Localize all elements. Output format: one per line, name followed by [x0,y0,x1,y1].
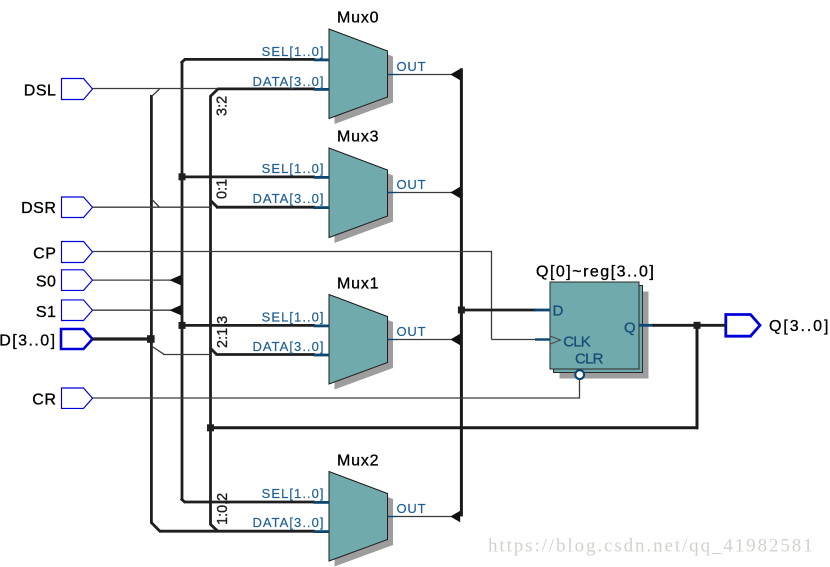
svg-text:CLK: CLK [563,334,591,351]
svg-text:Q: Q [624,320,636,337]
wire C bottom bevel to Mux2 DATA [210,524,218,532]
wire Mux0 OUT [398,74,452,76]
wire Mux2 OUT [398,516,452,518]
wire Q feedback vertical (x=697) [696,325,699,429]
CLR bubble [575,370,584,379]
svg-text:S1: S1 [36,304,57,321]
mux U-Mux2 shadow [335,477,394,567]
wire D[3..0] thick [93,337,153,340]
wire Mux1 DATA thick [216,353,316,356]
svg-text:Mux3: Mux3 [337,129,379,146]
svg-text:0:1: 0:1 [215,179,231,199]
wire C top bevel to Mux0 DATA [210,89,218,97]
arrow Mux0 OUT into bus [450,69,460,80]
wire reg Q thick [653,324,726,327]
stub Mux0 SEL [314,59,330,62]
port D[3..0] (bus, bold) [61,329,93,349]
clock edge triangle [550,336,561,344]
stub reg Q [639,324,654,327]
svg-text:Q[3..0]: Q[3..0] [769,318,830,335]
svg-text:DSL: DSL [24,83,57,100]
wire Mux0 SEL thick [184,58,315,61]
svg-text:https://blog.csdn.net/qq_41982: https://blog.csdn.net/qq_41982581 [488,536,815,557]
arrow Mux3 OUT into bus [450,187,460,198]
port DSL [62,79,93,100]
stub Mux3 OUT [388,192,399,194]
wire Mux3 DATA thick [216,206,315,209]
junction Mux1 SEL / line B [179,322,186,329]
mux U-Mux3 shadow [335,154,394,244]
arrow S0 into B [169,275,181,285]
wire S1 thin [93,309,177,311]
wire vertical A (x=152) [150,95,153,523]
wire CR thin [93,380,580,398]
svg-text:3:2: 3:2 [215,96,231,116]
wire A rip diagonal to Mux1 DATA [151,346,164,354]
wire B top bevel to Mux0 SEL [181,59,186,63]
port S1 [62,300,93,321]
wire Mux1 OUT [398,339,452,341]
svg-text:DATA[3..0]: DATA[3..0] [252,339,324,354]
wire Mux1 DATA thin part [163,354,212,356]
stub Mux0 OUT [388,74,399,76]
register Q[0]~reg[3..0] body [550,282,639,369]
wire C rip bevel to Mux1 DATA [210,348,217,355]
wire Q feedback horizontal (y=427.8) [211,426,699,429]
stub Mux3 DATA [314,206,330,209]
mux U-Mux0 [329,29,388,119]
mux U-Mux1 [329,295,388,385]
svg-text:SEL[1..0]: SEL[1..0] [262,486,325,501]
wire CLK thin horizontal [492,339,537,341]
stub Mux1 OUT [388,339,399,341]
wire Mux3 OUT [398,192,452,194]
svg-text:CR: CR [32,391,56,408]
wire CP-CLK vertical (x=491.5) [491,252,493,340]
stub Mux1 DATA [314,354,330,357]
port CR [62,388,93,408]
stub reg CLK [535,338,550,340]
wire A top bevel (thin, from DSL wire) [152,89,160,97]
mux U-Mux2 [329,472,388,562]
svg-text:S0: S0 [36,274,57,291]
wire Mux3 SEL thick [182,175,315,178]
port CP [62,242,93,263]
wire B bottom bevel to Mux2 SEL [181,499,186,503]
wire DSR thin [93,206,213,208]
register back plate [554,286,643,373]
port DSR [62,197,93,218]
stub Mux3 SEL [314,176,330,179]
stub Mux2 DATA [314,530,330,533]
arrow Mux2 OUT into bus [450,511,460,522]
junction reg D / bus [458,307,465,314]
svg-text:DATA[3..0]: DATA[3..0] [252,74,324,89]
svg-text:SEL[1..0]: SEL[1..0] [262,309,325,324]
svg-text:Mux1: Mux1 [337,275,379,292]
junction feedback / line C [207,424,214,431]
wire Mux2 DATA thick [159,530,315,533]
svg-text:DATA[3..0]: DATA[3..0] [252,515,324,530]
svg-text:OUT: OUT [397,59,427,74]
stub Mux1 SEL [314,324,330,327]
stub reg D [535,309,551,312]
svg-text:SEL[1..0]: SEL[1..0] [262,44,325,59]
wire DSL thin [93,88,219,90]
port S0 [62,270,93,291]
svg-text:D: D [553,303,564,320]
svg-text:DATA[3..0]: DATA[3..0] [252,191,324,206]
svg-text:CP: CP [33,246,56,263]
svg-text:Mux0: Mux0 [337,10,379,27]
wire vertical C (x=210.5) [209,96,212,525]
svg-text:OUT: OUT [397,177,427,192]
wire C rip bevel to Mux3 DATA [210,200,217,207]
wire Mux0 DATA thick [218,88,316,91]
port Q[3..0] [726,315,760,337]
svg-text:Mux2: Mux2 [337,452,379,469]
svg-text:CLR: CLR [575,351,604,368]
register shadow [560,292,649,379]
svg-text:2:1,3: 2:1,3 [215,316,231,348]
svg-text:D[3..0]: D[3..0] [0,333,57,350]
svg-text:Q[0]~reg[3..0]: Q[0]~reg[3..0] [536,264,655,281]
wire A rip diagonal to Mux3 DATA [151,199,159,207]
junction Mux3 SEL / line B [179,173,186,180]
wire vertical B (x=182) [181,63,184,501]
svg-text:SEL[1..0]: SEL[1..0] [262,161,325,176]
mux U-Mux0 shadow [335,35,394,125]
wire A bottom bevel to Mux2 DATA [151,522,160,531]
stub Mux2 SEL [314,501,330,504]
stub Mux2 OUT [388,516,399,518]
wire vertical bus (x=461.5) [460,68,463,516]
svg-text:DSR: DSR [21,200,56,217]
mux U-Mux1 shadow [335,300,394,390]
wire Mux1 SEL thick [182,324,315,327]
wire Mux2 SEL thick [184,501,315,504]
wire S0 thin [93,279,177,281]
svg-text:1:0,2: 1:0,2 [215,493,231,525]
mux U-Mux3 [329,148,388,238]
wire CP thin [93,251,493,253]
wire reg D thick [461,309,536,312]
svg-text:OUT: OUT [397,501,427,516]
arrow Mux1 OUT into bus [450,334,460,345]
arrow S1 into B [169,305,181,315]
svg-text:OUT: OUT [397,324,427,339]
stub Mux0 DATA [314,88,330,91]
junction Q wire / feedback [694,322,701,329]
junction D wire / line A [147,335,155,343]
